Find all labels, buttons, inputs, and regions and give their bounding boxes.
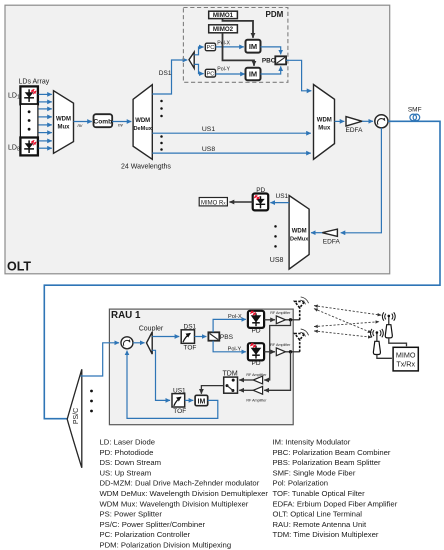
PDM dashed box <box>183 8 288 83</box>
circulator (RAU) <box>121 337 133 349</box>
legend right column <box>273 438 398 539</box>
coupler (RAU splitter) <box>147 332 153 354</box>
MIMO channel dashed link 4 (ant2 to user ant1) <box>314 331 372 337</box>
antenna 2 (RAU, dashed) <box>295 334 305 352</box>
wire PBS to PD2 Pol-Y <box>213 341 246 352</box>
wire junction2 to receive amp (lower) <box>264 352 290 391</box>
wire circulator to coupler <box>133 342 145 344</box>
antenna 1 (RAU, dashed) <box>295 301 305 319</box>
wire PD1 to RF amplifier 1 <box>264 319 275 321</box>
svg-text:MIMO1: MIMO1 <box>213 12 234 19</box>
time division multiplexer TDM switch <box>224 377 238 393</box>
svg-text:Tx/Rx: Tx/Rx <box>396 360 415 369</box>
polarization beam combiner PBC <box>275 56 286 64</box>
wire US1 <box>152 132 310 134</box>
svg-text:OLT: Optical Line Terminal: OLT: Optical Line Terminal <box>273 510 363 519</box>
svg-text:Pol-X: Pol-X <box>217 41 230 47</box>
svg-text:nv: nv <box>78 123 84 128</box>
wire PBC to WDM Mux 2 <box>286 60 311 91</box>
intensity modulator IM1 <box>246 40 261 53</box>
MIMO1 box <box>209 11 238 19</box>
svg-text:LDs Array: LDs Array <box>19 79 50 86</box>
MIMO channel dashed link 1 (ant1 to user ant2) <box>314 306 381 316</box>
wire SMF main fiber loop <box>44 121 440 418</box>
wire splitter to PC Pol-X <box>194 47 203 55</box>
wire LD outputs to WDM Mux (8 arrows) <box>39 94 52 148</box>
node dots between DS and US lines <box>160 100 163 151</box>
svg-text:PDM: PDM <box>266 10 284 19</box>
wire receive EDFA to WDM DeMux <box>311 232 322 234</box>
wire user antenna 1 to MIMO box <box>377 355 392 359</box>
laser diode LD1 <box>20 86 38 104</box>
wire WDM Mux to EDFA <box>335 120 345 122</box>
svg-text:SMF: SMF <box>408 107 422 114</box>
WDM DeMux (transmit) <box>133 85 153 160</box>
svg-text:IM: IM <box>249 42 257 51</box>
wire Comb to WDM DeMux <box>112 121 131 123</box>
svg-text:DeMux: DeMux <box>134 126 153 132</box>
wire amp1 to antenna junction <box>286 319 300 321</box>
svg-text:RF Amplifier: RF Amplifier <box>270 343 291 347</box>
wire MIMO1 to IM1 <box>223 19 254 38</box>
circulator (OLT) <box>375 115 388 128</box>
antenna 1 waves <box>300 297 308 305</box>
svg-text:WDM: WDM <box>135 118 150 124</box>
photodiode PD2 (RAU) <box>248 343 264 360</box>
user antenna 2 (upper) <box>382 312 395 338</box>
polarization beam splitter PBS <box>208 332 219 340</box>
svg-text:PD: PD <box>251 328 260 335</box>
MIMO Tx/Rx box <box>393 347 418 371</box>
svg-text:TOF: TOF <box>173 408 186 415</box>
wire US8 <box>152 152 310 154</box>
node junction 2 <box>289 350 292 353</box>
wire user antenna 2 to MIMO box <box>389 338 407 346</box>
WDM Mux (right, uplink combine) <box>314 85 335 160</box>
svg-text:24 Wavelengths: 24 Wavelengths <box>121 163 171 170</box>
RF amplifier 2 <box>276 348 285 356</box>
wire PD2 to RF amplifier 2 <box>264 351 275 353</box>
wire PC to IM (Y) <box>216 73 245 75</box>
wire PC to IM (X) <box>216 46 244 48</box>
RF amplifier 1 <box>276 316 285 324</box>
LD array middle box <box>20 104 38 137</box>
svg-text:LD8: LD8 <box>8 145 20 153</box>
svg-text:PBC: Polarization Beam Combine: PBC: Polarization Beam Combiner <box>273 448 391 457</box>
photodiode PD1 (RAU) <box>248 311 264 328</box>
svg-text:Mux: Mux <box>318 125 331 131</box>
wire PD to MIMO Rx <box>230 201 253 203</box>
RAU 1 box <box>109 309 293 425</box>
svg-text:PD: Photodiode: PD: Photodiode <box>100 448 154 457</box>
svg-text:US8: US8 <box>202 146 215 153</box>
svg-text:LD1: LD1 <box>8 93 20 101</box>
svg-text:IM: IM <box>249 70 257 79</box>
power splitter/combiner PS/C <box>67 369 82 468</box>
svg-text:TOF: TOF <box>184 344 197 351</box>
wire coupler to US1 TOF <box>152 350 170 400</box>
wire TDM to IM (RAU) <box>201 386 223 394</box>
svg-text:Pol-Y: Pol-Y <box>217 66 230 72</box>
wire PS/C to RAU circulator <box>81 343 120 376</box>
svg-text:MIMO2: MIMO2 <box>213 26 234 33</box>
svg-text:US1: US1 <box>276 193 289 200</box>
wire WDM Mux to Comb <box>74 121 92 123</box>
svg-text:PBC: PBC <box>262 58 276 65</box>
svg-text:MIMO: MIMO <box>396 351 416 360</box>
svg-text:Pol: Polarization: Pol: Polarization <box>273 479 329 488</box>
intensity modulator IM2 <box>246 68 261 81</box>
svg-text:Pol-X: Pol-X <box>228 314 242 320</box>
wire coupler to DS1 TOF <box>152 336 179 338</box>
antenna 2 waves <box>300 329 308 337</box>
svg-text:DS: Down Stream: DS: Down Stream <box>100 458 162 467</box>
svg-text:PBS: Polarization Beam Splitte: PBS: Polarization Beam Splitter <box>273 458 382 467</box>
node dots (receive demux) <box>274 225 277 248</box>
svg-text:nv: nv <box>118 122 124 127</box>
wire TOF to IM (RAU) <box>185 399 194 401</box>
wire IM2 to PBC <box>261 66 281 74</box>
svg-text:EDFA: Erbium Doped Fiber Ampli: EDFA: Erbium Doped Fiber Amplifier <box>273 499 398 508</box>
svg-text:US1: US1 <box>202 126 215 133</box>
svg-text:EDFA: EDFA <box>323 239 341 246</box>
svg-text:WDM Mux: Wavelength Division M: WDM Mux: Wavelength Division Multiplexer <box>100 499 249 508</box>
node dots (other RAUs) <box>90 390 93 413</box>
tunable optical filter TOF (DS1) <box>181 330 194 344</box>
svg-text:WDM DeMux: Wavelength Division: WDM DeMux: Wavelength Division Demultipl… <box>100 489 269 498</box>
svg-text:PBS: PBS <box>220 334 234 341</box>
wire TOF to PBS <box>195 336 207 338</box>
svg-text:PC: PC <box>207 45 215 51</box>
intensity modulator IM (RAU) <box>195 395 208 405</box>
svg-text:PS/C: PS/C <box>73 408 80 424</box>
MIMO Rx box <box>199 198 227 207</box>
wire EDFA to circulator <box>362 120 373 122</box>
user antenna 1 (lower) <box>370 329 383 355</box>
svg-text:US: Up Stream: US: Up Stream <box>100 469 152 478</box>
svg-text:DeMux: DeMux <box>290 236 309 242</box>
MIMO2 box <box>209 25 238 33</box>
svg-text:IM: IM <box>198 398 206 405</box>
svg-text:OLT: OLT <box>7 260 31 274</box>
svg-text:EDFA: EDFA <box>346 127 364 134</box>
svg-text:PS: Power Splitter: PS: Power Splitter <box>100 510 163 519</box>
wire circulator to receive EDFA <box>341 128 382 233</box>
svg-text:WDM: WDM <box>292 229 307 235</box>
svg-text:DS1: DS1 <box>159 70 172 77</box>
laser diode LD8 <box>20 138 38 156</box>
svg-text:LD: Laser Diode: LD: Laser Diode <box>100 438 156 447</box>
wire amp2 to antenna junction <box>286 351 300 353</box>
OLT box <box>5 5 390 274</box>
wire rx amp upper to TDM <box>239 379 253 381</box>
svg-text:RAU: Remote Antenna Unit: RAU: Remote Antenna Unit <box>273 520 367 529</box>
svg-text:Comb: Comb <box>93 119 112 126</box>
svg-text:RF Amplifier: RF Amplifier <box>246 398 267 402</box>
svg-text:Pol-Y: Pol-Y <box>228 346 242 352</box>
svg-text:IM: Intensity Modulator: IM: Intensity Modulator <box>273 438 351 447</box>
polarization controller PC (X) <box>205 43 215 51</box>
wire junction1 to receive amp (upper) <box>264 320 290 380</box>
wire splitter to PC Pol-Y <box>194 64 203 73</box>
wire DS1 from DeMux to PDM splitter <box>152 60 187 94</box>
RF amplifier rx lower <box>253 386 262 394</box>
polarization controller PC (Y) <box>205 69 215 77</box>
SMF fiber coil <box>410 114 420 121</box>
MIMO channel dashed link 2 (ant1 to user ant1) <box>314 309 372 333</box>
MIMO channel dashed link 3 (ant2 to user ant2) <box>314 322 379 327</box>
node junction 1 <box>289 318 292 321</box>
svg-text:WDM: WDM <box>317 118 332 124</box>
svg-text:RF Amplifier: RF Amplifier <box>246 373 267 377</box>
svg-text:Mux: Mux <box>58 124 71 130</box>
tunable optical filter TOF (US1) <box>172 394 185 407</box>
WDM DeMux (receive) <box>289 196 309 270</box>
svg-text:MIMO Rx: MIMO Rx <box>201 200 226 206</box>
comb generator Comb <box>93 114 112 127</box>
photodiode PD (OLT) <box>253 194 269 211</box>
wire US1 receive to PD <box>270 202 289 204</box>
WDM Mux (transmit) <box>54 91 74 154</box>
svg-text:TDM: TDM <box>223 370 238 377</box>
wire rx amp lower to TDM <box>239 389 253 391</box>
svg-text:TDM: Time Division Multiplexer: TDM: Time Division Multiplexer <box>273 530 379 539</box>
wire IM back to circulator (upstream) <box>127 351 218 419</box>
wire IM1 to PBC <box>261 47 281 55</box>
svg-text:PC: Polarization Controller: PC: Polarization Controller <box>100 530 191 539</box>
RF amplifier rx upper <box>253 376 262 384</box>
svg-text:PDM: Polarization Division Mul: PDM: Polarization Division Multipexing <box>100 540 232 549</box>
svg-text:Coupler: Coupler <box>139 325 164 332</box>
legend left column <box>100 438 269 550</box>
EDFA amplifier (transmit) <box>346 117 362 127</box>
svg-text:DD-MZM: Dual Drive Mach-Zehnde: DD-MZM: Dual Drive Mach-Zehnder modulato… <box>100 479 260 488</box>
svg-text:TOF: Tunable Optical Filter: TOF: Tunable Optical Filter <box>273 489 366 498</box>
wire PBS to PD1 Pol-X <box>213 319 246 332</box>
power splitter PS (PDM) <box>189 52 194 68</box>
EDFA amplifier (receive) <box>322 229 337 236</box>
svg-text:US8: US8 <box>270 257 284 264</box>
svg-text:PD: PD <box>251 360 260 367</box>
svg-text:PC: PC <box>207 72 215 78</box>
svg-text:SMF: Single Mode Fiber: SMF: Single Mode Fiber <box>273 469 356 478</box>
svg-text:PS/C: Power Splitter/Combiner: PS/C: Power Splitter/Combiner <box>100 520 206 529</box>
svg-text:RAU 1: RAU 1 <box>111 310 141 321</box>
wire MIMO2 to IM2 <box>223 33 255 66</box>
svg-text:WDM: WDM <box>56 117 71 123</box>
svg-text:RF Amplifier: RF Amplifier <box>270 311 291 315</box>
